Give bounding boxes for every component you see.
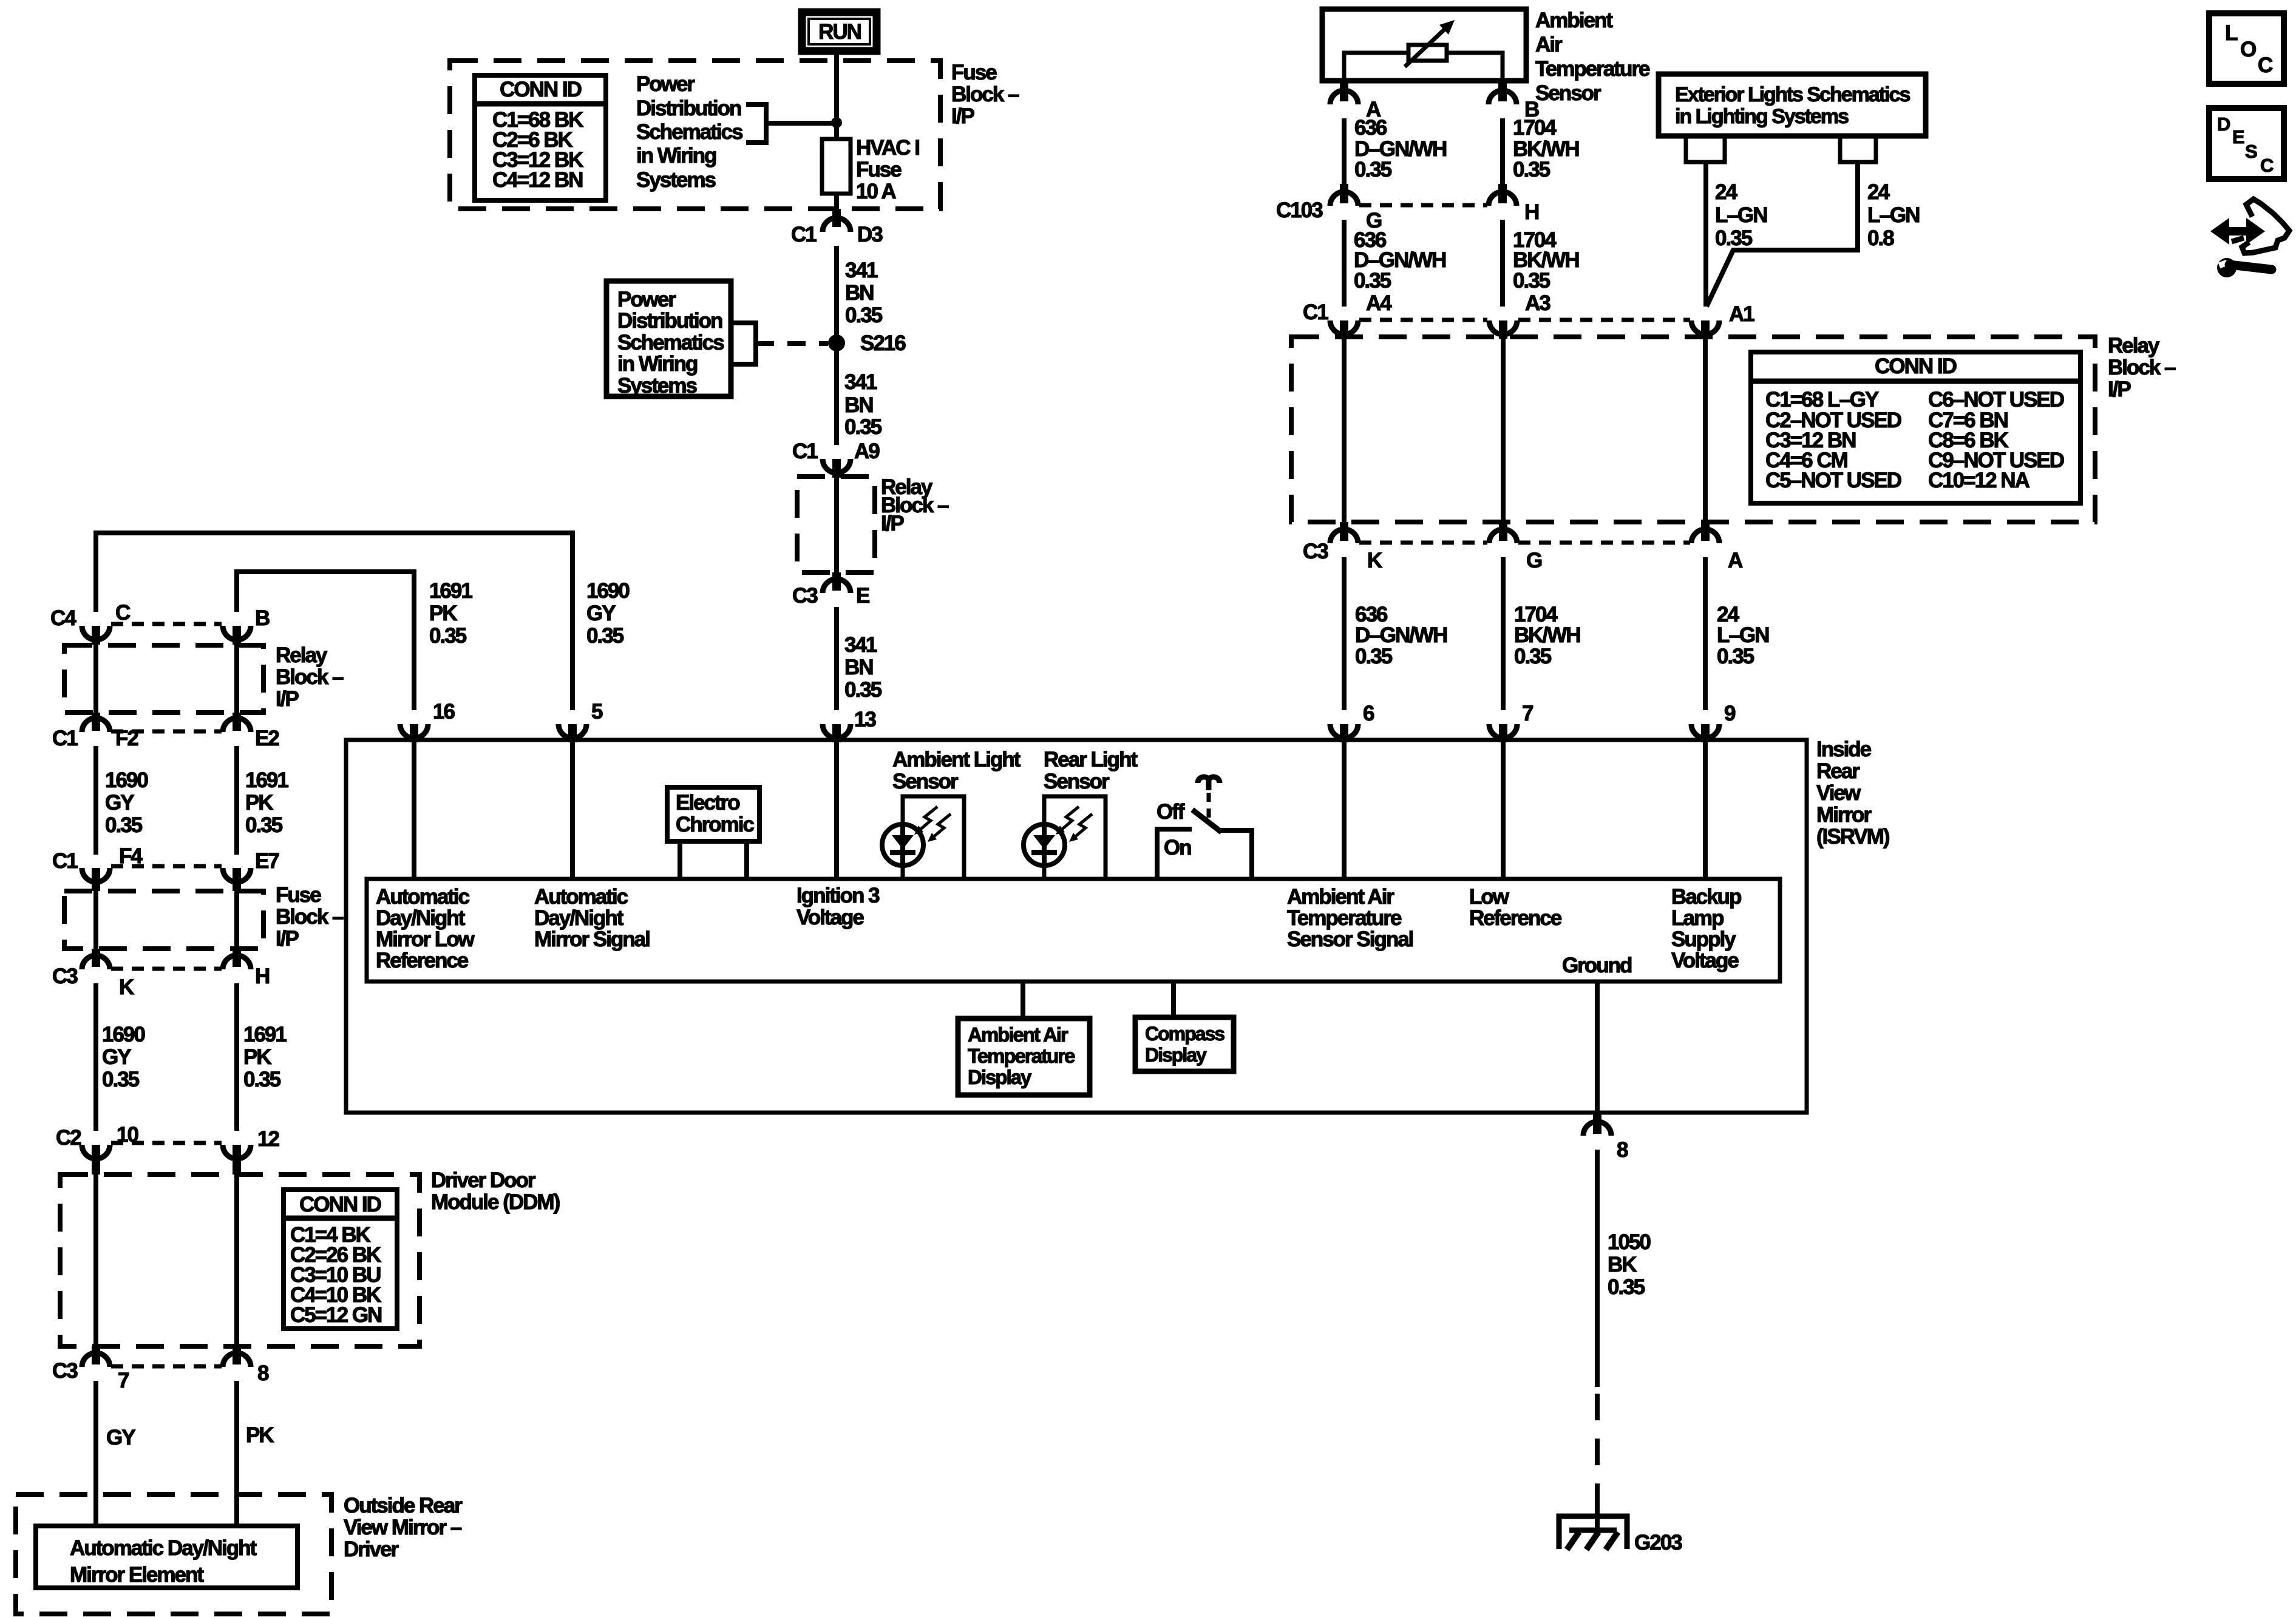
svg-text:A3: A3 — [1525, 291, 1550, 315]
connector C1 D3 — [791, 209, 883, 246]
pin 9 — [1691, 702, 1736, 742]
svg-text:Day/Night: Day/Night — [376, 906, 466, 930]
svg-text:1704: 1704 — [1513, 116, 1557, 140]
ambient air temperature sensor box — [1322, 9, 1526, 81]
wires through relay block — [93, 645, 98, 715]
svg-text:Block –: Block – — [276, 905, 344, 929]
exterior lights schematics box — [1659, 74, 1926, 136]
connector C1 E7 — [223, 849, 279, 891]
DESC icon box — [2209, 108, 2284, 179]
svg-text:Display: Display — [968, 1066, 1032, 1088]
wires through DDM — [93, 1174, 98, 1349]
label Ambient Light Sensor — [892, 748, 1021, 793]
svg-text:D3: D3 — [857, 223, 883, 246]
ground wire inside module — [1595, 981, 1600, 1113]
connector C3 A — [1691, 522, 1743, 572]
svg-text:PK: PK — [245, 791, 273, 815]
svg-text:Relay: Relay — [2108, 334, 2160, 358]
svg-text:Exterior Lights Schematics: Exterior Lights Schematics — [1675, 83, 1910, 106]
wire RUN to fuse — [834, 55, 839, 141]
label 1704 BK/WH 0.35 — [1514, 603, 1580, 668]
connector C1 A3 — [1489, 320, 1517, 339]
connector C3 K — [52, 949, 134, 999]
svg-text:C103: C103 — [1276, 198, 1323, 222]
svg-text:A9: A9 — [854, 439, 880, 463]
svg-text:A: A — [1728, 549, 1743, 572]
svg-text:E: E — [2232, 126, 2245, 147]
svg-text:Supply: Supply — [1671, 927, 1736, 951]
wire to compass display — [1171, 981, 1176, 1020]
connector C4 C — [50, 601, 131, 645]
connector C1 A1 — [1691, 302, 1754, 339]
ground wire dashed segment — [1595, 1394, 1600, 1494]
svg-text:341: 341 — [844, 370, 877, 394]
svg-text:0.35: 0.35 — [1514, 645, 1552, 668]
svg-text:L–GN: L–GN — [1717, 623, 1768, 647]
inner terminal label box — [367, 879, 1780, 981]
svg-text:L–GN: L–GN — [1715, 203, 1767, 227]
svg-text:C2: C2 — [56, 1126, 81, 1150]
compass display box — [1135, 1017, 1234, 1071]
svg-text:0.35: 0.35 — [102, 1068, 140, 1091]
svg-text:B: B — [255, 606, 270, 630]
svg-text:Driver: Driver — [344, 1537, 399, 1561]
svg-text:Ambient: Ambient — [1535, 8, 1613, 32]
wires through relay block — [1342, 337, 1347, 524]
svg-text:Reference: Reference — [1469, 906, 1562, 930]
svg-text:24: 24 — [1715, 180, 1737, 204]
resistor arrow — [1405, 20, 1455, 67]
label Ambient Air Temperature Sensor — [1535, 8, 1650, 105]
relay block I/P dashed box (left) — [64, 645, 263, 713]
svg-text:K: K — [119, 975, 134, 999]
svg-text:GY: GY — [102, 1045, 131, 1069]
wire 7 down — [93, 1381, 98, 1528]
label Backup Lamp Supply Voltage — [1671, 885, 1741, 972]
sensor internal wiring — [1344, 53, 1503, 81]
outside rear view mirror dashed box — [16, 1494, 331, 1614]
svg-text:Lamp: Lamp — [1671, 906, 1724, 930]
svg-text:Ambient Air: Ambient Air — [968, 1023, 1068, 1046]
label 24 L-GN 0.8 — [1867, 180, 1919, 250]
junction dot — [831, 117, 842, 128]
svg-text:On: On — [1164, 836, 1191, 859]
CONN ID table (fuse block) — [475, 75, 606, 200]
svg-text:0.35: 0.35 — [1354, 269, 1391, 293]
svg-text:C10=12 NA: C10=12 NA — [1928, 469, 2030, 492]
svg-text:16: 16 — [433, 700, 455, 724]
svg-text:C3: C3 — [52, 964, 78, 988]
svg-text:0.35: 0.35 — [844, 415, 882, 439]
svg-text:0.35: 0.35 — [844, 678, 882, 702]
pin 5 — [559, 700, 603, 742]
svg-text:7: 7 — [118, 1369, 129, 1392]
svg-text:Fuse: Fuse — [951, 61, 997, 84]
label 636 D-GN/WH 0.35 — [1355, 603, 1447, 668]
svg-text:12: 12 — [257, 1127, 279, 1151]
label Relay Block I/P — [276, 643, 344, 711]
svg-text:Day/Night: Day/Night — [534, 906, 624, 930]
svg-text:E7: E7 — [255, 849, 279, 873]
svg-text:CONN ID: CONN ID — [1875, 354, 1957, 378]
svg-text:C: C — [2260, 155, 2274, 176]
svg-text:Automatic Day/Night: Automatic Day/Night — [70, 1536, 257, 1560]
svg-text:C: C — [2258, 53, 2273, 77]
label 1690 GY 0.35 — [102, 1023, 145, 1091]
wire left to A1 — [1703, 162, 1708, 307]
connector C3 H — [223, 949, 269, 988]
label Ignition 3 Voltage — [796, 884, 880, 929]
svg-text:Power: Power — [636, 72, 695, 96]
svg-text:0.35: 0.35 — [1715, 226, 1753, 250]
svg-text:7: 7 — [1522, 702, 1533, 725]
wire right to A1 — [1707, 162, 1858, 307]
svg-text:Schematics: Schematics — [636, 120, 743, 144]
label Fuse Block I/P — [951, 61, 1019, 128]
svg-text:O: O — [2240, 38, 2257, 61]
svg-text:PK: PK — [246, 1423, 274, 1447]
svg-text:HVAC I: HVAC I — [856, 136, 919, 160]
svg-text:9: 9 — [1724, 702, 1736, 725]
svg-text:Ambient Air: Ambient Air — [1287, 885, 1394, 909]
ground G203 — [1559, 1516, 1682, 1554]
svg-text:Display: Display — [1145, 1044, 1207, 1066]
svg-text:Mirror Signal: Mirror Signal — [534, 927, 650, 951]
wire A to pin 9 — [1703, 557, 1708, 710]
svg-text:Relay: Relay — [276, 643, 328, 667]
svg-text:Ambient Light: Ambient Light — [892, 748, 1021, 771]
connector C103 G — [1276, 184, 1382, 232]
svg-text:PK: PK — [243, 1045, 271, 1069]
svg-text:C1: C1 — [792, 439, 818, 463]
label Relay Block I/P — [881, 475, 949, 535]
svg-text:CONN ID: CONN ID — [299, 1193, 381, 1216]
label 341 BN 0.35 — [844, 633, 882, 702]
svg-text:BK/WH: BK/WH — [1514, 623, 1580, 647]
svg-text:341: 341 — [845, 259, 878, 282]
label Low Reference — [1469, 885, 1562, 930]
svg-text:A1: A1 — [1729, 302, 1754, 326]
bracket to wire — [746, 104, 766, 143]
note Power Distribution Schematics in Wiring Systems — [636, 72, 743, 192]
label 1704 BK/WH 0.35 — [1513, 228, 1579, 293]
svg-text:I/P: I/P — [951, 104, 974, 128]
wire F2 down — [93, 746, 98, 855]
svg-text:Sensor: Sensor — [1044, 770, 1110, 793]
svg-text:5: 5 — [591, 700, 603, 724]
label 24 L-GN 0.35 — [1717, 603, 1768, 668]
svg-text:Temperature: Temperature — [1535, 57, 1650, 81]
svg-text:Outside Rear: Outside Rear — [344, 1494, 463, 1517]
svg-text:1691: 1691 — [429, 579, 472, 603]
svg-text:Mirror Low: Mirror Low — [376, 927, 475, 951]
svg-text:13: 13 — [854, 708, 876, 731]
pin 13 — [823, 708, 876, 742]
svg-text:8: 8 — [1617, 1138, 1628, 1162]
label Relay Block I/P — [2108, 334, 2176, 401]
label Inside Rear View Mirror (ISRVM) — [1816, 737, 1889, 849]
jump navigation icon — [2210, 199, 2289, 277]
switch actuator symbol — [1198, 777, 1220, 790]
label 1050 BK 0.35 — [1608, 1230, 1651, 1299]
svg-text:Block –: Block – — [951, 83, 1019, 106]
svg-text:Ground: Ground — [1562, 954, 1632, 977]
svg-text:E: E — [856, 584, 869, 608]
svg-text:D: D — [2217, 114, 2230, 135]
fuse block I/P dashed box — [450, 61, 940, 209]
svg-text:0.8: 0.8 — [1867, 226, 1894, 250]
wire B down — [1500, 118, 1505, 186]
connector B — [1489, 82, 1539, 121]
wire fuse to C1 D3 — [834, 194, 839, 211]
svg-text:I/P: I/P — [276, 687, 299, 711]
exterior lights stub right — [1840, 136, 1876, 162]
svg-text:Sensor Signal: Sensor Signal — [1287, 927, 1413, 951]
note box Power Distribution Schematics in Wiring Systems — [606, 281, 731, 398]
connector pair line F4-E7 — [111, 864, 222, 869]
relay block I/P dashed box (right) — [1291, 337, 2095, 522]
svg-text:Mirror: Mirror — [1816, 803, 1872, 827]
connector C3 K — [1303, 522, 1382, 572]
svg-text:Schematics: Schematics — [617, 331, 724, 354]
connector pair line K-G — [1359, 541, 1487, 545]
svg-text:0.35: 0.35 — [1355, 645, 1393, 668]
rear light photodiode — [1024, 824, 1065, 866]
svg-text:RUN: RUN — [818, 20, 861, 44]
wire K down — [93, 983, 98, 1131]
svg-text:10 A: 10 A — [856, 180, 896, 203]
svg-text:C3: C3 — [792, 584, 818, 608]
label 1690 GY 0.35 — [586, 579, 630, 648]
label 341 BN 0.35 — [845, 259, 883, 327]
switch blade — [1192, 810, 1221, 832]
svg-text:(ISRVM): (ISRVM) — [1816, 825, 1889, 849]
svg-text:K: K — [1367, 549, 1382, 572]
wire mirror signal loop to pin 16 — [237, 572, 414, 710]
svg-text:C4=12 BN: C4=12 BN — [492, 168, 582, 192]
svg-text:0.35: 0.35 — [429, 624, 467, 648]
label 1691 PK 0.35 — [429, 579, 472, 648]
connector pair line 7-8 — [111, 1364, 222, 1369]
pin wires inside module — [412, 740, 416, 879]
svg-text:I/P: I/P — [881, 512, 904, 535]
label 1690 GY 0.35 — [105, 768, 148, 837]
connector pair line A4-A3 — [1359, 318, 1487, 322]
svg-text:PK: PK — [429, 602, 457, 625]
svg-text:C1: C1 — [52, 727, 78, 750]
exterior lights stub left — [1686, 136, 1725, 162]
svg-text:GY: GY — [105, 791, 134, 815]
fuse block I/P dashed box (left) — [64, 891, 263, 949]
svg-text:BN: BN — [844, 393, 873, 417]
svg-text:C3: C3 — [1303, 540, 1328, 563]
label Driver Door Module (DDM) — [431, 1168, 560, 1214]
svg-text:Systems: Systems — [617, 374, 698, 398]
wire G down — [1342, 220, 1347, 307]
label 1691 PK 0.35 — [245, 768, 288, 837]
pin 6 — [1330, 702, 1374, 742]
connector pair line C-B — [111, 622, 222, 626]
svg-text:G: G — [1526, 549, 1542, 572]
bracket to S216 — [731, 323, 756, 364]
connector C103 H — [1489, 184, 1538, 224]
CONN ID table (relay block) — [1751, 352, 2080, 503]
connector pair line F2-E2 — [111, 730, 222, 734]
label Automatic Day/Night Mirror Signal — [534, 885, 650, 951]
connector C1 F4 — [52, 844, 143, 891]
switch on contact — [1217, 830, 1252, 879]
svg-text:A4: A4 — [1366, 291, 1392, 315]
label Outside Rear View Mirror Driver — [344, 1494, 463, 1561]
connector C1 E2 — [223, 713, 279, 750]
svg-text:GY: GY — [106, 1426, 135, 1449]
svg-text:L: L — [2225, 21, 2238, 45]
svg-text:H: H — [1524, 200, 1538, 224]
svg-text:Block –: Block – — [2108, 356, 2176, 379]
svg-text:I/P: I/P — [276, 927, 299, 951]
ambient light sensor frame — [903, 796, 964, 879]
svg-text:Backup: Backup — [1671, 885, 1741, 909]
electro chromic box — [667, 787, 759, 841]
svg-text:Electro: Electro — [676, 791, 740, 815]
svg-text:S216: S216 — [860, 331, 906, 355]
svg-text:Systems: Systems — [636, 168, 716, 192]
svg-text:636: 636 — [1354, 116, 1387, 140]
svg-text:G203: G203 — [1634, 1531, 1682, 1554]
wire K to pin 6 — [1342, 557, 1347, 710]
svg-text:C: C — [115, 601, 131, 625]
wires through fuse block — [93, 890, 98, 951]
connector C1 A4 — [1303, 300, 1358, 339]
svg-text:0.35: 0.35 — [1717, 645, 1754, 668]
label 1691 PK 0.35 — [243, 1023, 287, 1091]
svg-text:0.35: 0.35 — [1513, 158, 1550, 181]
svg-text:1690: 1690 — [105, 768, 148, 792]
automatic day/night mirror element box — [36, 1526, 297, 1588]
svg-text:L–GN: L–GN — [1867, 203, 1919, 227]
svg-text:C1: C1 — [1303, 300, 1328, 324]
svg-text:View Mirror –: View Mirror – — [344, 1516, 462, 1539]
svg-text:24: 24 — [1867, 180, 1890, 204]
svg-text:0.35: 0.35 — [1608, 1275, 1645, 1299]
svg-text:E2: E2 — [255, 727, 279, 750]
wire E2 down — [234, 746, 239, 855]
connector C3 G — [1489, 522, 1542, 572]
svg-text:1691: 1691 — [245, 768, 288, 792]
svg-text:I/P: I/P — [2108, 378, 2131, 401]
svg-text:1690: 1690 — [102, 1023, 145, 1046]
svg-text:8: 8 — [257, 1361, 269, 1385]
label Ambient Air Temperature Sensor Signal — [1287, 885, 1413, 951]
label HVAC I Fuse 10 A — [856, 136, 919, 203]
svg-text:Reference: Reference — [376, 949, 469, 972]
ambient light photodiode — [882, 824, 923, 866]
connector C2 12 — [223, 1127, 279, 1175]
svg-text:0.35: 0.35 — [845, 303, 883, 327]
pin 16 — [400, 700, 455, 742]
svg-text:C5=12 GN: C5=12 GN — [290, 1303, 381, 1327]
connector A — [1330, 82, 1381, 121]
svg-text:Sensor: Sensor — [1535, 81, 1601, 105]
svg-text:in Wiring: in Wiring — [636, 144, 716, 168]
label 341 BN 0.35 — [844, 370, 882, 439]
wire bracket link — [766, 121, 837, 126]
svg-text:BK: BK — [1608, 1253, 1637, 1276]
connector C1 A9 — [792, 439, 880, 478]
CONN ID table (DDM) — [284, 1190, 397, 1329]
svg-text:Low: Low — [1469, 885, 1510, 909]
svg-text:0.35: 0.35 — [586, 624, 624, 648]
connector C3 8 — [223, 1346, 269, 1385]
ignition switch RUN box — [802, 12, 877, 51]
label 24 L-GN 0.35 — [1715, 180, 1767, 250]
driver door module dashed box — [60, 1175, 419, 1346]
wire H down — [1500, 220, 1505, 307]
svg-text:Ignition 3: Ignition 3 — [796, 884, 880, 907]
svg-text:1050: 1050 — [1608, 1230, 1651, 1254]
electro chromic legs — [678, 841, 682, 879]
light rays rear — [1056, 807, 1092, 842]
svg-text:in Lighting Systems: in Lighting Systems — [1675, 105, 1849, 128]
switch off contact — [1157, 829, 1192, 879]
svg-text:C1: C1 — [791, 223, 817, 246]
svg-text:Air: Air — [1535, 33, 1563, 56]
svg-text:Distribution: Distribution — [636, 97, 741, 120]
svg-text:Compass: Compass — [1145, 1023, 1224, 1045]
svg-text:Rear: Rear — [1816, 759, 1860, 783]
svg-text:Voltage: Voltage — [796, 906, 864, 929]
connector C4 B — [223, 606, 270, 645]
svg-text:Voltage: Voltage — [1671, 949, 1739, 972]
svg-text:Fuse: Fuse — [856, 158, 902, 181]
svg-text:View: View — [1816, 781, 1861, 805]
svg-text:S: S — [2245, 141, 2258, 162]
svg-text:in Wiring: in Wiring — [617, 352, 698, 376]
svg-text:0.35: 0.35 — [105, 813, 143, 837]
pin 7 — [1489, 702, 1533, 742]
LOC icon box — [2209, 13, 2284, 84]
svg-text:Fuse: Fuse — [276, 883, 321, 907]
svg-text:H: H — [255, 964, 269, 988]
svg-text:BN: BN — [845, 281, 874, 305]
wire to AAT display — [1021, 981, 1025, 1021]
svg-text:0.35: 0.35 — [1513, 269, 1550, 293]
svg-text:Inside: Inside — [1816, 737, 1872, 761]
svg-text:6: 6 — [1363, 702, 1374, 725]
pin 8 — [1583, 1114, 1628, 1162]
connector C3 7 — [52, 1346, 129, 1392]
relay block I/P dashed box (center) — [797, 476, 875, 572]
svg-text:C3: C3 — [52, 1359, 78, 1383]
wire E to pin 13 — [834, 607, 839, 710]
label 1704 BK/WH 0.35 — [1513, 116, 1579, 181]
connector C3 E — [792, 572, 869, 608]
dashed link to S216 — [756, 341, 828, 346]
connector C1 F2 — [52, 713, 138, 750]
svg-text:Block –: Block – — [276, 665, 344, 689]
svg-text:Temperature: Temperature — [968, 1045, 1075, 1067]
connector C2 10 — [56, 1123, 138, 1175]
svg-text:0.35: 0.35 — [1354, 158, 1392, 181]
svg-text:Module (DDM): Module (DDM) — [431, 1190, 560, 1214]
wire G to pin 7 — [1501, 557, 1506, 710]
svg-text:BN: BN — [844, 656, 873, 679]
wire A down — [1342, 118, 1347, 186]
wire D3 to A9 with S216 — [834, 246, 839, 445]
splice S216 — [828, 334, 845, 351]
svg-text:Driver Door: Driver Door — [431, 1168, 536, 1192]
label 636 D-GN/WH 0.35 — [1354, 116, 1446, 181]
